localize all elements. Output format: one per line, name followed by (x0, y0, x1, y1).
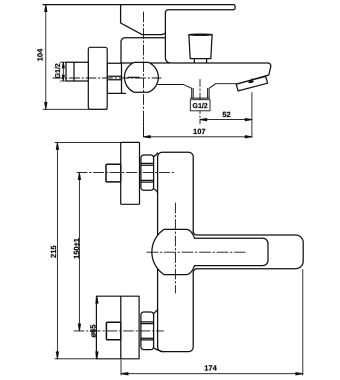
centerline horizontal (top view) (53, 77, 161, 79)
dimension 104 (43, 5, 107, 110)
dimension 215 (55, 142, 121, 358)
svg-text:107: 107 (193, 127, 206, 136)
hex nut (top view) (107, 63, 121, 93)
svg-text:174: 174 (204, 364, 217, 373)
centerline vertical body (top view) (143, 12, 145, 137)
body top line (top view) (122, 63, 271, 66)
bottom nut (front view) (141, 312, 154, 350)
bottom nut connection curves (154, 310, 163, 352)
bottom mount wall block (106, 322, 120, 340)
barrel center mark (128, 76, 139, 78)
body bottom contour (top view) (158, 84, 237, 98)
bottom mount divider (120, 296, 122, 359)
top nut connection curves (154, 153, 158, 193)
top mount escutcheon (front view) (121, 142, 140, 204)
lever pivot cap + inner outline (front view) (152, 229, 268, 274)
svg-text:G1/2: G1/2 (193, 102, 208, 110)
escutcheon (top view) (88, 47, 107, 109)
extension line spout tip (251, 79, 253, 138)
dimension 52 (200, 118, 252, 120)
centerline shower outlet (199, 80, 201, 124)
svg-text:104: 104 (35, 48, 44, 61)
spout (top view) (237, 66, 271, 84)
G1/2 label box (top view bottom) (190, 100, 210, 111)
cartridge barrel (top view) (124, 62, 158, 92)
centerline lever horizontal (147, 251, 245, 253)
centerline bottom mount (74, 330, 164, 332)
top nut (front view) (141, 155, 154, 190)
top mount wall block (106, 164, 121, 182)
lever outer bar outline (front view) (193, 231, 303, 272)
cartridge cap (top view) (121, 38, 165, 63)
body bottom left stub (122, 92, 126, 94)
dimension 107 (144, 120, 253, 138)
aerator (top view) (236, 76, 267, 91)
svg-text:150±1: 150±1 (72, 238, 81, 259)
centerline top mount (77, 172, 174, 174)
svg-text:215: 215 (49, 245, 58, 258)
dimension 174 (121, 270, 303, 375)
body (front view) (158, 152, 194, 351)
svg-text:ø65: ø65 (88, 325, 97, 338)
svg-text:52: 52 (222, 110, 230, 119)
centerline body vertical (174, 203, 176, 293)
eraser: body edge behind lever bar (192, 233, 195, 272)
diverter knob (top view) (189, 34, 212, 63)
lever bar (top view) (43, 5, 235, 63)
dimension ø65 arrows on plate edge (96, 296, 98, 359)
bottom mount outer rect (front view) (96, 296, 139, 359)
svg-text:G1/2: G1/2 (54, 63, 62, 78)
inlet pipe (top view) (66, 62, 88, 81)
dimension 150±1 (78, 173, 80, 331)
dimension G1/2 (inlet) (60, 62, 66, 81)
